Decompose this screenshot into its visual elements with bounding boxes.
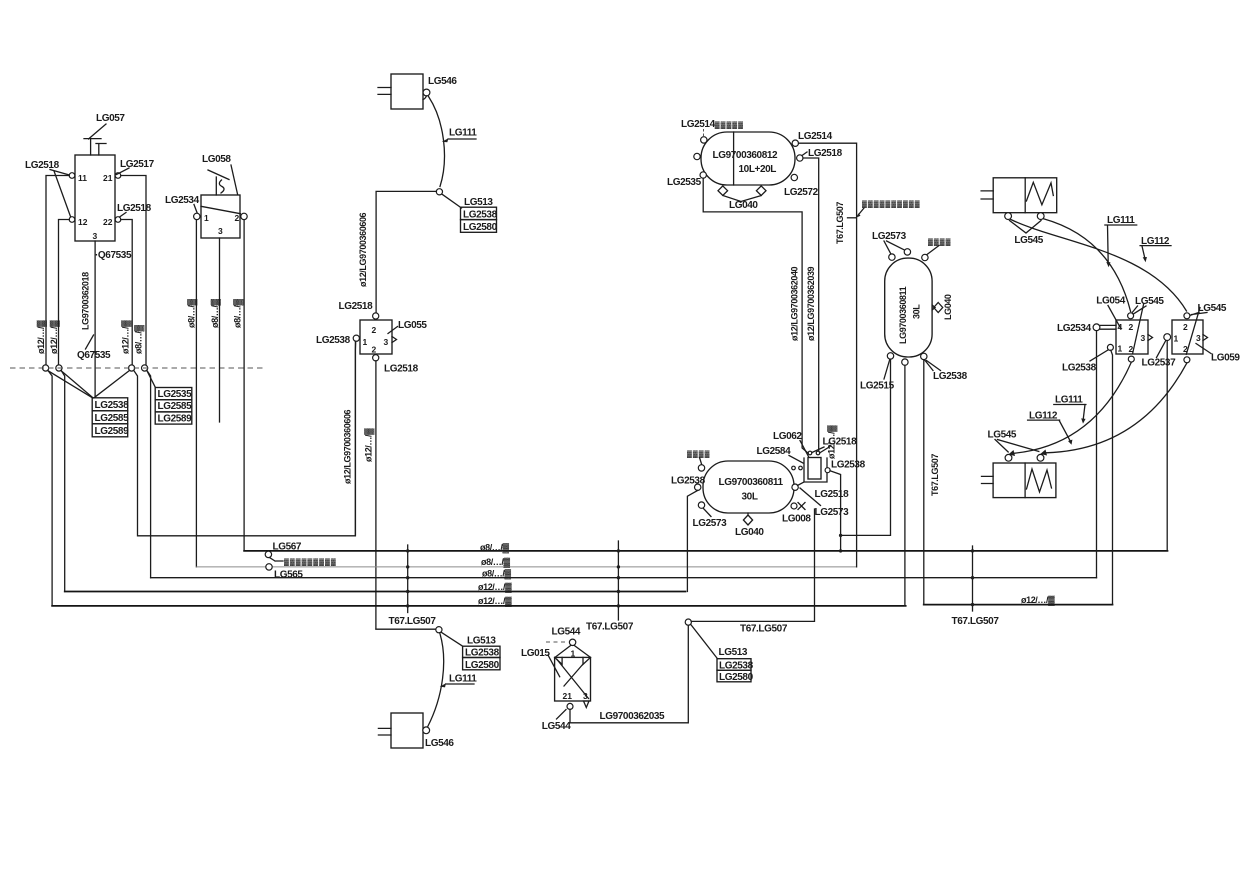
svg-text:LG058: LG058 (202, 154, 231, 165)
svg-text:LG2534: LG2534 (1057, 323, 1092, 334)
bus red o12 (65, 591, 686, 593)
svg-text:LG9700360811: LG9700360811 (898, 286, 908, 344)
switch lever LG057 (84, 113, 125, 155)
svg-text:LG008: LG008 (782, 514, 811, 525)
chamber2 port right (1037, 454, 1044, 461)
svg-text:LG2580: LG2580 (719, 672, 754, 683)
wire tank bottom-left jog to bus black (841, 359, 891, 535)
bus segment o12 black right (924, 604, 1113, 606)
note pressure switch 2 with leader (687, 450, 710, 464)
svg-text:3: 3 (1141, 333, 1146, 343)
hose curve LG112 bottom run (1046, 363, 1187, 453)
svg-text:ø8/…/▓: ø8/…/▓ (134, 324, 145, 354)
svg-text:LG040: LG040 (943, 294, 953, 320)
drain valve LG040 right (932, 294, 953, 320)
svg-text:LG565: LG565 (274, 570, 303, 581)
svg-text:·Q67535: ·Q67535 (95, 250, 132, 261)
svg-text:ø8/…/▓: ø8/…/▓ (481, 557, 511, 568)
svg-text:10L+20L: 10L+20L (739, 164, 777, 175)
label LG112 bottom-left with arrow (1028, 411, 1073, 445)
tank port top-mid (904, 249, 910, 255)
drain valves LG040 pair (718, 186, 766, 211)
relay valve LG054 (1116, 304, 1153, 354)
svg-text:2: 2 (372, 325, 377, 335)
node A circle (43, 365, 49, 371)
tank port right (792, 484, 798, 490)
bus blue o12 (52, 605, 906, 607)
leader node to LG513 box upper (442, 194, 462, 208)
label LG111 right with arrow (1105, 215, 1137, 267)
tank port top-right pressure switch (922, 254, 928, 260)
junction dots (839, 534, 842, 537)
wire LG2518 port to LG062 via 2039 (803, 158, 819, 452)
svg-text:LG544: LG544 (552, 627, 581, 638)
svg-text:3: 3 (1196, 333, 1201, 343)
svg-text:LG2573: LG2573 (872, 231, 907, 242)
svg-text:ø12/…/▓: ø12/…/▓ (478, 582, 512, 593)
wire LG2534 port to bus purple end (1096, 331, 1098, 578)
hook below port (423, 96, 427, 100)
wire LG062 out to bus black (830, 471, 841, 551)
wire T67 horizontal to node2 (376, 628, 436, 630)
svg-text:LG544: LG544 (542, 721, 571, 732)
svg-text:3: 3 (384, 337, 389, 347)
hose arc LG111 top (429, 97, 445, 187)
svg-text:30L: 30L (742, 492, 758, 503)
svg-text:LG040: LG040 (735, 527, 764, 538)
tank port bottom-left LG2573 (698, 502, 704, 508)
label LG545 top chamber with leaders (1010, 221, 1044, 247)
valve LG058 body (201, 195, 240, 238)
port circle LG055 top (373, 313, 379, 319)
label LG2538 with leaders (925, 360, 968, 382)
svg-text:LG2538: LG2538 (933, 371, 968, 382)
port 22 circle (115, 217, 121, 223)
svg-text:LG513: LG513 (467, 636, 496, 647)
svg-text:12: 12 (78, 217, 88, 227)
wire LG054 port1 to seg604 end (1111, 350, 1113, 604)
connector label box LG2538/LG2580 bottom-right (717, 659, 754, 683)
svg-text:ø12/LG9700362039: ø12/LG9700362039 (806, 266, 816, 341)
port circle LG059 bottom (1184, 357, 1190, 363)
svg-text:LG062: LG062 (773, 431, 802, 442)
svg-text:LG057: LG057 (96, 113, 125, 124)
svg-text:ø8/…/▓: ø8/…/▓ (482, 569, 512, 580)
label LG2534 with leader (165, 195, 200, 213)
wire port21 to node D (121, 176, 146, 365)
svg-text:Q67535: Q67535 (77, 350, 111, 361)
svg-text:LG513: LG513 (719, 647, 748, 658)
node junction upper (436, 189, 442, 195)
port circle LG055 bottom (373, 355, 379, 361)
wire node A down to bus blue (48, 370, 52, 606)
tank port right-bottom LG2572 (791, 174, 797, 180)
svg-text:ø12/LG9700360606: ø12/LG9700360606 (358, 212, 368, 287)
hose arc LG111 bottom (428, 633, 444, 727)
wire port12 to node B (59, 220, 70, 365)
svg-text:LG2538: LG2538 (95, 400, 130, 411)
svg-text:3: 3 (218, 226, 223, 236)
relay valve LG059 (1172, 308, 1208, 355)
svg-text:LG2572: LG2572 (784, 187, 819, 198)
valve LG062 body (792, 451, 827, 482)
svg-text:ø12/…/▓: ø12/…/▓ (478, 596, 512, 607)
label LG015 with leader (521, 648, 560, 677)
svg-text:T67.LG507: T67.LG507 (740, 624, 788, 635)
svg-text:ø12/LG9700360606: ø12/LG9700360606 (343, 409, 353, 484)
svg-text:▓▓▓▓▓▓▓▓▓▓: ▓▓▓▓▓▓▓▓▓▓ (862, 200, 921, 208)
svg-text:3: 3 (93, 231, 98, 241)
label LG2537 with leader (1142, 341, 1177, 369)
svg-text:ø12/…/▓: ø12/…/▓ (36, 320, 47, 354)
hose curve LG111 top run (1044, 219, 1131, 312)
connector label box LG2538/LG2580 upper (461, 207, 498, 233)
connector LG546 bottom box (378, 713, 454, 749)
label LG2518 right with leader (117, 203, 152, 217)
port 12 circle (69, 217, 75, 223)
tank port bottom-right (921, 353, 927, 359)
tank port bottom-mid (902, 359, 908, 365)
svg-text:LG2538: LG2538 (316, 335, 351, 346)
test port LG008 (782, 503, 811, 525)
svg-text:2: 2 (372, 345, 377, 355)
svg-text:1: 1 (1174, 334, 1179, 344)
svg-text:LG2538: LG2538 (719, 660, 754, 671)
label LG058 with leader (202, 154, 238, 194)
node junction lower-left (436, 627, 442, 633)
svg-text:LG2538: LG2538 (465, 648, 500, 659)
svg-text:LG2589: LG2589 (95, 426, 130, 437)
svg-text:21: 21 (563, 691, 573, 701)
hand brake valve Q67535 body (75, 155, 115, 241)
svg-text:1: 1 (363, 337, 368, 347)
node junction no3 (685, 619, 691, 625)
svg-text:LG2580: LG2580 (465, 660, 500, 671)
label LG2584 with leader (757, 446, 804, 463)
svg-text:LG545: LG545 (1198, 303, 1227, 314)
svg-text:LG054: LG054 (1096, 296, 1125, 307)
wire LG2514 to bus green (799, 143, 857, 567)
wire LG055 bottom port down to T67 node (375, 361, 377, 629)
svg-text:ø8/…/▓: ø8/…/▓ (233, 298, 244, 328)
svg-text:ø12/…/▓: ø12/…/▓ (1021, 595, 1055, 606)
label LG054 with leader (1096, 296, 1125, 329)
chamber port left (1005, 213, 1012, 220)
bus green o8 thin (196, 566, 856, 568)
leader node B to label box (61, 371, 93, 398)
air tank LG9700360811 horizontal (703, 461, 794, 513)
svg-text:LG567: LG567 (273, 542, 302, 553)
svg-text:ø12/…/▓: ø12/…/▓ (364, 428, 375, 462)
leader node3 to LG513 box (691, 625, 717, 659)
wire LG055 port1 down (354, 341, 356, 535)
tie point T67.LG507 no3 (971, 546, 974, 611)
svg-text:ø8/…/▓: ø8/…/▓ (480, 543, 510, 554)
wire port22 to node C (121, 220, 132, 365)
svg-text:LG2589: LG2589 (158, 413, 193, 424)
label LG2518 with leader (802, 148, 843, 159)
svg-text:2: 2 (235, 213, 240, 223)
svg-text:LG9700360812: LG9700360812 (713, 150, 779, 161)
svg-text:LG2515: LG2515 (860, 381, 895, 392)
wire port3 down to label box (94, 241, 96, 396)
label LG2573 with leader (693, 509, 728, 530)
svg-text:ø12/…/▓: ø12/…/▓ (49, 320, 60, 354)
brake chamber bottom (982, 463, 1056, 498)
tank port top-left (698, 465, 704, 471)
port circle LG546 top (423, 89, 430, 96)
label LG2517 with leader (117, 159, 155, 175)
svg-text:LG2518: LG2518 (384, 364, 419, 375)
wire LG2535 port to LG062 via 2040 (703, 178, 808, 453)
label LG2515 with leader (860, 360, 895, 392)
wire tank bottom-right to seg604 (923, 360, 925, 605)
label LG2514 aux air (681, 119, 744, 137)
node B circle (56, 365, 62, 371)
svg-text:▓▓▓▓▓▓▓▓▓: ▓▓▓▓▓▓▓▓▓ (284, 558, 337, 566)
svg-text:LG545: LG545 (1014, 235, 1043, 246)
svg-text:T67.LG507: T67.LG507 (930, 454, 940, 496)
leader node2 to LG513 box (442, 633, 463, 646)
port circle LG059 left (1164, 334, 1171, 341)
label LG2518 top-left with leaders (25, 160, 71, 217)
svg-text:LG059: LG059 (1211, 353, 1240, 364)
svg-text:LG9700360811: LG9700360811 (719, 477, 784, 488)
svg-text:21: 21 (103, 173, 113, 183)
svg-text:LG2518: LG2518 (25, 160, 60, 171)
chamber port right (1037, 213, 1044, 220)
note pressure switch with leader (927, 238, 951, 255)
leader node A to label box (48, 371, 93, 398)
drain valve LG040 bottom (735, 513, 764, 538)
svg-text:LG2535: LG2535 (667, 177, 702, 188)
svg-text:LG9700362035: LG9700362035 (600, 711, 666, 722)
pressure switch LG565 (266, 564, 304, 581)
label LG059 with leader (1196, 344, 1240, 364)
node D circle (142, 365, 148, 371)
wire LG015 to node3 LG9700362035 (570, 625, 688, 723)
bus black o8 (244, 550, 1167, 552)
port 1 circle LG058 (194, 213, 200, 219)
port circle LG062 right LG2538 (825, 468, 830, 473)
label LG2573 with leaders (872, 231, 907, 254)
label LG062 with leader (773, 431, 809, 457)
svg-text:1: 1 (1118, 344, 1123, 354)
svg-text:▓▓▓▓: ▓▓▓▓ (687, 450, 710, 458)
leader node D to label box 2 (147, 370, 156, 387)
svg-text:LG2517: LG2517 (120, 159, 155, 170)
label LG2518 top of valve with leaders (812, 437, 857, 454)
quick release valve LG015 (546, 627, 591, 710)
wire tank right to valve LG062 (798, 482, 805, 486)
svg-text:LG2538: LG2538 (831, 460, 866, 471)
port circle LG054 left-bottom (1107, 344, 1113, 350)
tank port right-mid LG2518 (797, 155, 803, 161)
connector label box LG2538/LG2585/LG2589 (92, 398, 129, 437)
svg-text:ø8/…/▓: ø8/…/▓ (210, 298, 221, 328)
svg-text:30L: 30L (912, 304, 922, 319)
label LG112 right with arrow (1140, 236, 1171, 262)
chamber2 port left (1005, 454, 1012, 461)
svg-text:LG2585: LG2585 (95, 413, 130, 424)
label LG111 bottom-left with arrow (1054, 395, 1086, 424)
node C circle (129, 365, 135, 371)
svg-text:LG2535: LG2535 (158, 389, 193, 400)
svg-text:1: 1 (204, 213, 209, 223)
svg-text:ø12/LG9700362040: ø12/LG9700362040 (790, 266, 800, 341)
svg-text:LG2538: LG2538 (1062, 363, 1097, 374)
tank port top-left (889, 254, 895, 260)
svg-text:2: 2 (1129, 322, 1134, 332)
tie point T67.LG507 no2 (617, 541, 620, 620)
svg-text:LG2584: LG2584 (757, 446, 792, 457)
wire node C down then right to LG055 port1 (134, 342, 356, 536)
wire LG059 left port to bus black end (1166, 341, 1168, 551)
tank port right-top LG2514 (792, 140, 798, 146)
rotated label T67.LG507 on riser (835, 202, 856, 244)
connector label box LG2535/LG2585/LG2589 (155, 388, 192, 425)
svg-text:ø12/…/▓: ø12/…/▓ (121, 320, 132, 354)
wire tank bottom-mid to bus blue end (904, 365, 906, 606)
svg-text:LG055: LG055 (398, 320, 427, 331)
wire port11 to node A (46, 176, 69, 365)
svg-text:11: 11 (78, 173, 87, 183)
svg-text:3: 3 (583, 691, 588, 701)
tank port left LG2538 (695, 484, 701, 490)
tank port left (694, 153, 700, 159)
svg-text:▓▓▓▓: ▓▓▓▓ (928, 238, 951, 246)
svg-text:LG2538: LG2538 (671, 476, 706, 487)
wire LG058 port1 to bus green (195, 220, 197, 567)
wire LG058 port3 stub (219, 238, 221, 422)
svg-text:LG2573: LG2573 (815, 507, 850, 518)
port circle LG059 top (1184, 313, 1190, 319)
port circle LG546 bottom (423, 727, 430, 734)
arrowhead at chamber2 right (1040, 450, 1047, 456)
label LG545 bottom chamber with leaders (988, 430, 1039, 453)
svg-text:T67.LG507: T67.LG507 (586, 622, 634, 633)
air tank LG9700360812 (701, 132, 795, 185)
wire tank left to bus red end (687, 490, 697, 591)
valve LG055 body (360, 320, 397, 355)
svg-text:T67.LG507: T67.LG507 (835, 202, 845, 244)
svg-text:LG2518: LG2518 (815, 489, 850, 500)
svg-text:ø8/…/▓: ø8/…/▓ (187, 298, 198, 328)
switch actuator LG058 (208, 170, 229, 195)
svg-text:LG2585: LG2585 (158, 401, 193, 412)
connector label box LG2538/LG2580 bottom-left (463, 646, 500, 671)
svg-text:LG546: LG546 (428, 76, 457, 87)
wire node3 right and up (691, 509, 814, 621)
svg-text:LG111: LG111 (449, 128, 477, 139)
tank port bottom-left LG2535 (700, 172, 706, 178)
hose curve LG112 top run (1011, 220, 1187, 312)
bus purple o8 (151, 577, 1097, 579)
svg-text:LG2514: LG2514 (798, 131, 833, 142)
svg-text:LG513: LG513 (464, 197, 493, 208)
leader node C to label box (94, 370, 130, 397)
port circle LG054 bottom (1128, 356, 1134, 362)
label Q67535 lower with leader (77, 335, 111, 361)
svg-text:T67.LG507: T67.LG507 (389, 616, 437, 627)
svg-text:LG040: LG040 (729, 200, 758, 211)
arrowhead at chamber2 left (1008, 450, 1015, 456)
tie point T67.LG507 no1 (406, 545, 409, 613)
svg-text:ø12/…/▓: ø12/…/▓ (827, 425, 838, 459)
svg-text:LG2573: LG2573 (693, 518, 728, 529)
svg-text:2: 2 (1183, 322, 1188, 332)
tank port top-left (701, 137, 707, 143)
label LG545 LG059 with leaders (1190, 303, 1227, 316)
svg-text:LG2538: LG2538 (463, 209, 498, 220)
port 2 circle LG058 (241, 213, 247, 219)
svg-text:LG2518: LG2518 (339, 301, 374, 312)
brake chamber top (981, 178, 1057, 213)
wire node D down to bus purple (147, 370, 151, 577)
wire node to LG055 port2 (376, 191, 436, 313)
label LG055 with leader (388, 320, 427, 334)
svg-text:22: 22 (103, 217, 113, 227)
air tank LG9700360811 vertical (885, 258, 932, 357)
tank port bottom-left LG2515 (887, 353, 893, 359)
svg-text:LG2537: LG2537 (1142, 358, 1177, 369)
svg-text:T67.LG507: T67.LG507 (952, 616, 1000, 627)
svg-text:1: 1 (571, 649, 576, 659)
wire LG058 port2 to bus black (243, 220, 245, 551)
port 21 circle (115, 173, 121, 179)
hose curve LG111 bottom run (1014, 362, 1131, 453)
port 11 circle (69, 173, 75, 179)
svg-text:LG545: LG545 (1135, 296, 1164, 307)
svg-text:LG546: LG546 (425, 738, 454, 749)
pressure switch LG567 (265, 542, 337, 567)
label LG544 bottom with leader (542, 710, 571, 733)
svg-text:LG9700362018: LG9700362018 (81, 272, 91, 330)
svg-text:LG2580: LG2580 (463, 222, 498, 233)
label LG111 top with arrow (442, 128, 478, 143)
svg-text:LG111: LG111 (449, 674, 477, 685)
note rear spring fixing with leader (857, 200, 921, 218)
connector LG546 top box (378, 74, 457, 109)
label LG111 bottom with arrow (440, 674, 478, 688)
supply stub LG2534 (1057, 323, 1116, 334)
svg-text:LG545: LG545 (988, 430, 1017, 441)
label LG2538 with leader (1062, 350, 1108, 374)
port circle LG054 top (1128, 313, 1134, 319)
port circle LG055 left (353, 335, 359, 341)
labels LG2518/LG2573 below valve with leader (800, 488, 849, 518)
svg-text:LG015: LG015 (521, 648, 550, 659)
label LG545 LG054 with leaders (1132, 296, 1165, 314)
axle centerline dashed (10, 367, 263, 369)
wire node B down to bus red (61, 370, 65, 591)
